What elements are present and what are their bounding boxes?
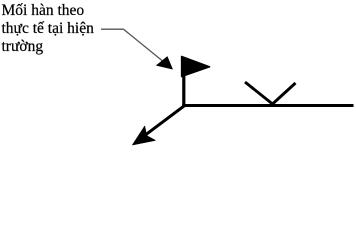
field weld flag — [182, 56, 210, 76]
svg-text:trường: trường — [2, 38, 44, 55]
leader arrowhead — [156, 57, 172, 70]
annotation text "Mối hàn theo thực tế tại hiện trường" — [2, 2, 95, 55]
reference line — [182, 104, 353, 107]
svg-text:Mối hàn theo: Mối hàn theo — [2, 2, 85, 19]
V weld symbol right arm — [273, 83, 296, 104]
V weld symbol left arm — [245, 82, 273, 104]
weld arrowhead — [133, 126, 156, 145]
weld arrow line (shaft) — [140, 106, 184, 139]
svg-text:thực tế tại hiện: thực tế tại hiện — [2, 20, 95, 37]
field weld flag pole — [182, 57, 185, 106]
leader line from text — [101, 29, 168, 65]
